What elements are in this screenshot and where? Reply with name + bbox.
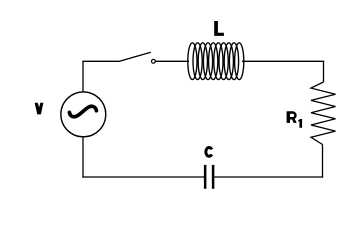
label C [206,148,212,157]
wire left vertical bottom [82,137,84,178]
wire inductor to top-right corner [242,60,324,62]
wire bottom left horizontal [82,176,204,178]
voltage source V circle [61,92,106,137]
inductor L coil [188,43,244,80]
capacitor C right plate [212,165,215,189]
wire left vertical top [82,61,84,92]
switch S1 contact circle [152,59,156,63]
label R1 [287,111,303,127]
capacitor C left plate [204,165,207,189]
voltage source sine symbol [69,106,96,117]
wire right vertical top [323,61,325,82]
wire switch to inductor [156,60,189,62]
resistor R1 zigzag [311,82,336,145]
wire top-left horizontal [82,60,118,62]
label L [214,21,224,36]
wire bottom right horizontal [214,176,323,178]
switch S1 blade [119,52,151,61]
wire right vertical bottom [322,145,324,178]
label V [35,103,44,115]
